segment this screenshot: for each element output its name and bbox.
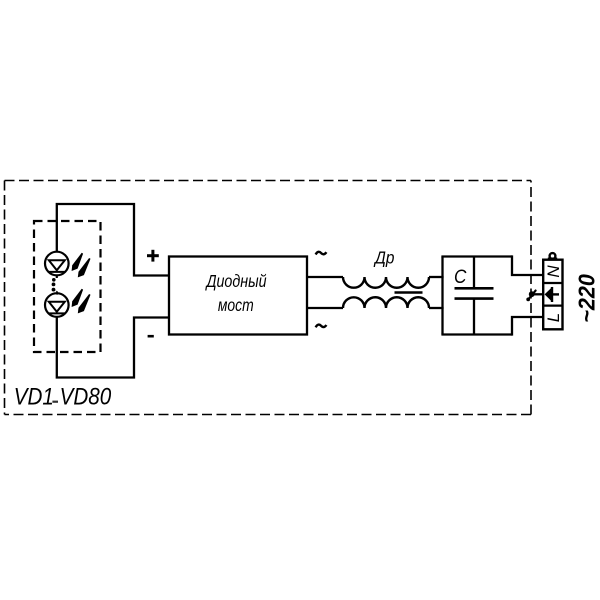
wire filter to terminal N	[512, 255, 544, 275]
diode bridge box	[169, 257, 307, 335]
LED VD1	[45, 252, 69, 276]
svg-text:C: C	[454, 265, 467, 287]
wire choke to filter bottom	[429, 307, 444, 309]
earth wire	[532, 293, 544, 295]
svg-text:мост: мост	[218, 297, 254, 316]
earth junction tick	[528, 291, 536, 300]
filter box top rail	[441, 255, 512, 257]
filter box bottom rail	[441, 333, 512, 335]
wire bridge to choke bottom	[307, 307, 343, 309]
wire choke to filter top	[429, 276, 444, 278]
choke top winding	[343, 277, 429, 288]
wire filter to terminal L	[512, 317, 544, 336]
wire LED anode to bridge plus	[57, 204, 169, 276]
node earth junction	[529, 291, 535, 297]
LED VD80 emission arrows	[72, 289, 91, 314]
filter box left edge	[441, 257, 443, 335]
choke core	[395, 291, 423, 294]
LED chain dots	[52, 275, 58, 295]
terminal block	[543, 260, 562, 330]
svg-text:N: N	[544, 265, 563, 278]
LED VD80	[45, 293, 69, 317]
minus label	[148, 335, 154, 338]
earth pin symbol	[545, 287, 559, 302]
svg-text:L: L	[544, 313, 563, 322]
LED VD1 emission arrows	[72, 253, 91, 278]
capacitor C	[455, 258, 494, 334]
earth terminal circle	[550, 253, 556, 259]
wire bridge to choke top	[307, 276, 343, 278]
svg-text:Др: Др	[373, 248, 394, 267]
LED module dashed box	[34, 221, 101, 352]
svg-text:~220: ~220	[574, 274, 600, 323]
enclosure dashed border	[5, 181, 532, 415]
svg-text:Диодный: Диодный	[205, 273, 267, 292]
AC tilde top	[316, 252, 327, 255]
AC tilde bottom	[316, 325, 327, 328]
terminal block divider 1	[543, 282, 562, 284]
choke bottom winding	[343, 297, 429, 308]
terminal block divider 2	[543, 305, 562, 307]
svg-text:VD1 VD80: VD1 VD80	[14, 383, 112, 410]
label VD1..VD80 dash	[52, 401, 58, 403]
wire LED cathode to bridge minus	[57, 317, 169, 378]
plus label	[147, 250, 159, 262]
